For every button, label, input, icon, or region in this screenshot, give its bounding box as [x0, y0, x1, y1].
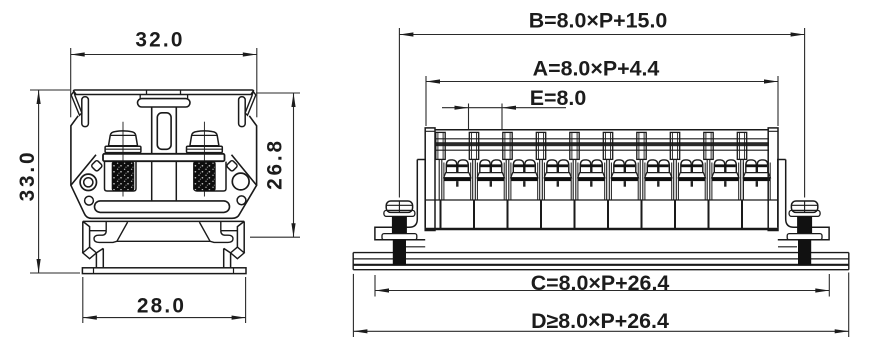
left small hole: [85, 196, 94, 205]
pole screw cap pairs: [444, 160, 771, 200]
rail plate: [353, 253, 849, 270]
dimension 28.0: [83, 277, 246, 323]
center post lower: [152, 162, 177, 201]
left diamond hole: [91, 160, 103, 172]
dimension 26.8: [250, 93, 300, 237]
C slot: [95, 201, 230, 213]
dimension 33.0: [16, 90, 80, 273]
screw M2 (right): [187, 122, 223, 197]
clamp yoke bar: [138, 99, 191, 107]
right wing hook: [245, 92, 256, 116]
dimension A: [426, 57, 778, 126]
yoke slot: [157, 113, 171, 150]
partition posts and pole dividers: [436, 132, 747, 229]
right bracket: [778, 160, 829, 247]
svg-text:C=8.0×P+26.4: C=8.0×P+26.4: [531, 271, 670, 295]
right pin: [239, 97, 246, 127]
left end screw: [382, 201, 417, 266]
right diamond hole: [226, 160, 238, 172]
clamp top plate: [103, 154, 225, 161]
left eyelet inner: [84, 178, 93, 187]
body bottom: [425, 228, 778, 230]
dimension D: [353, 273, 848, 338]
svg-text:B=8.0×P+15.0: B=8.0×P+15.0: [529, 9, 668, 33]
left wing hook: [71, 92, 82, 116]
svg-text:32.0: 32.0: [135, 29, 184, 52]
top plate: [74, 90, 254, 95]
left end plate: [425, 128, 435, 231]
left pin: [82, 97, 89, 127]
left eyelet outer: [80, 174, 96, 190]
right end screw: [787, 201, 822, 266]
left cavity: [105, 162, 137, 191]
right end plate: [768, 128, 778, 231]
svg-text:E=8.0: E=8.0: [530, 86, 587, 110]
dimension E: [442, 86, 586, 129]
housing left side: [71, 116, 78, 186]
svg-text:26.8: 26.8: [264, 138, 287, 190]
dimension C: [375, 271, 829, 297]
body top line: [435, 129, 768, 131]
DIN foot: [82, 221, 246, 273]
svg-text:A=8.0×P+4.4: A=8.0×P+4.4: [533, 57, 660, 81]
svg-text:28.0: 28.0: [137, 295, 186, 318]
svg-text:D≥8.0×P+26.4: D≥8.0×P+26.4: [531, 309, 669, 333]
screw M1 (left): [105, 122, 141, 197]
rails: [435, 139, 769, 150]
hex clamp body: [71, 155, 257, 219]
clamp yoke post: [152, 107, 177, 154]
housing right side: [249, 116, 256, 186]
dimension B: [399, 9, 804, 198]
mid horizontal: [425, 199, 778, 201]
right small hole: [237, 196, 246, 205]
svg-text:33.0: 33.0: [16, 150, 39, 202]
dimension 32.0: [71, 29, 257, 118]
right eyelet: [232, 173, 249, 190]
right cavity: [195, 162, 227, 191]
left bracket: [375, 160, 425, 247]
